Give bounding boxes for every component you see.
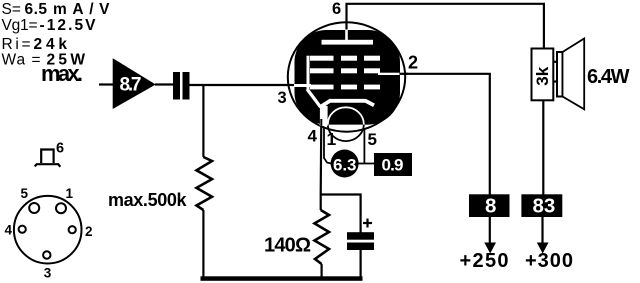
tube electrode blob (295, 30, 401, 125)
heater current label 0.9 (374, 153, 412, 176)
pin3 lead white inside blob (294, 84, 311, 87)
heater voltage label 6.3 (331, 150, 359, 178)
tube envelope circle (288, 22, 405, 131)
wire 6.3 circle to 0.9 box (358, 163, 374, 165)
wire pin6 anode top lead (347, 4, 544, 49)
wire cap to grid pin 3 (190, 84, 297, 86)
svg-text:Ri=: Ri= (2, 36, 31, 53)
cathode lead diagonal white (307, 89, 321, 107)
cathode chevron (320, 101, 375, 108)
capacitor bottom lead (360, 250, 362, 278)
screen dropper box 8 (469, 194, 510, 217)
svg-text:Wa =: Wa = (2, 52, 41, 69)
svg-text:3k: 3k (533, 66, 552, 85)
anode dropper box 83 (521, 194, 562, 217)
heater filament circle white part (328, 107, 364, 141)
heater pin1 wire (324, 127, 331, 164)
heater filament circle black part (328, 107, 364, 141)
arrow +300 (541, 217, 543, 245)
svg-text:6: 6 (332, 0, 341, 18)
wire cathode pin4 down (320, 119, 323, 195)
socket hole 2 (69, 226, 76, 233)
speaker connect tick top (553, 61, 557, 63)
ground bus bar (201, 276, 363, 281)
cathode resistor zigzag (315, 210, 330, 264)
svg-text:5: 5 (368, 130, 377, 149)
socket base circle (14, 196, 82, 264)
output transformer 3k box (532, 49, 554, 101)
bypass capacitor plus sign (363, 222, 372, 224)
heater pin5 wire (363, 126, 365, 164)
svg-text:-12.5V: -12.5V (40, 17, 97, 34)
svg-text:3: 3 (44, 265, 52, 280)
wire pin6 inside circle (345, 22, 347, 31)
svg-text:6.4W: 6.4W (587, 66, 630, 88)
svg-text:4: 4 (5, 223, 13, 238)
svg-text:5: 5 (21, 186, 29, 201)
svg-text:83: 83 (533, 195, 556, 218)
grid resistor zigzag (197, 157, 213, 210)
socket hole 3 (43, 251, 50, 258)
wire triangle to coupling cap (155, 83, 173, 85)
arrow +250 (489, 217, 491, 245)
wire input stub (99, 83, 113, 85)
svg-text:max.500k: max.500k (108, 190, 187, 210)
cathode resistor 140 ohm top lead (320, 195, 322, 211)
wire 3k box to 83 box (542, 100, 544, 195)
grid resistor max.500k top lead (202, 85, 204, 157)
coupling capacitor C1 plate 2 (183, 72, 190, 100)
grid row 3 dashes (310, 85, 334, 90)
svg-text:0.9: 0.9 (382, 156, 404, 175)
socket hole 4 (19, 226, 26, 233)
socket top cap base (35, 164, 61, 167)
coupling capacitor C1 plate 1 (173, 72, 180, 100)
svg-text:4: 4 (308, 127, 318, 146)
input amplitude triangle 8.7 (113, 58, 156, 109)
socket hole 5 (29, 203, 39, 213)
cathode lead channel white (320, 106, 328, 126)
svg-text:3: 3 (278, 89, 287, 107)
svg-text:8.7: 8.7 (120, 75, 142, 96)
svg-text:max.: max. (41, 61, 83, 86)
svg-text:1: 1 (327, 129, 337, 149)
svg-text:6.3: 6.3 (333, 156, 357, 175)
svg-text:24k: 24k (34, 36, 68, 53)
svg-text:6: 6 (56, 141, 64, 157)
svg-text:+250: +250 (460, 250, 509, 272)
svg-text:Vg1=: Vg1= (2, 17, 38, 34)
cathode resistor bottom lead (321, 264, 323, 278)
svg-text:140Ω: 140Ω (264, 235, 311, 257)
wire pin3 inside circle (288, 84, 297, 86)
socket top cap symbol square (41, 150, 53, 164)
svg-text:S: S (2, 1, 12, 18)
svg-text:2: 2 (85, 224, 93, 239)
cathode junction wire to RC (321, 195, 361, 234)
pin6 lead white (345, 30, 348, 41)
svg-text:8: 8 (485, 195, 496, 218)
grid left connector white (307, 56, 310, 90)
grid resistor bottom lead (202, 210, 204, 278)
bypass capacitor plate top (347, 232, 374, 240)
pin4 lead black inside channel (320, 119, 322, 126)
grid row 1 dashes (310, 56, 334, 61)
grid row 2 dashes (310, 68, 334, 73)
svg-text:mA/V: mA/V (53, 1, 110, 18)
svg-text:+300: +300 (525, 250, 573, 272)
anode plate bar (322, 40, 374, 45)
wire pin2 inside circle (396, 73, 408, 75)
socket hole 1 (56, 203, 66, 213)
pin2 lead white inside blob (378, 73, 400, 75)
wire pin2 screen feed (399, 74, 490, 195)
speaker connect tick bottom (553, 80, 557, 82)
bypass capacitor plate bottom (347, 243, 374, 251)
svg-text:6.5: 6.5 (25, 1, 48, 18)
svg-text:=: = (12, 1, 21, 18)
speaker cone (563, 39, 585, 110)
speaker driver rect (557, 52, 563, 97)
svg-text:2: 2 (408, 53, 418, 73)
svg-text:1: 1 (66, 186, 74, 201)
